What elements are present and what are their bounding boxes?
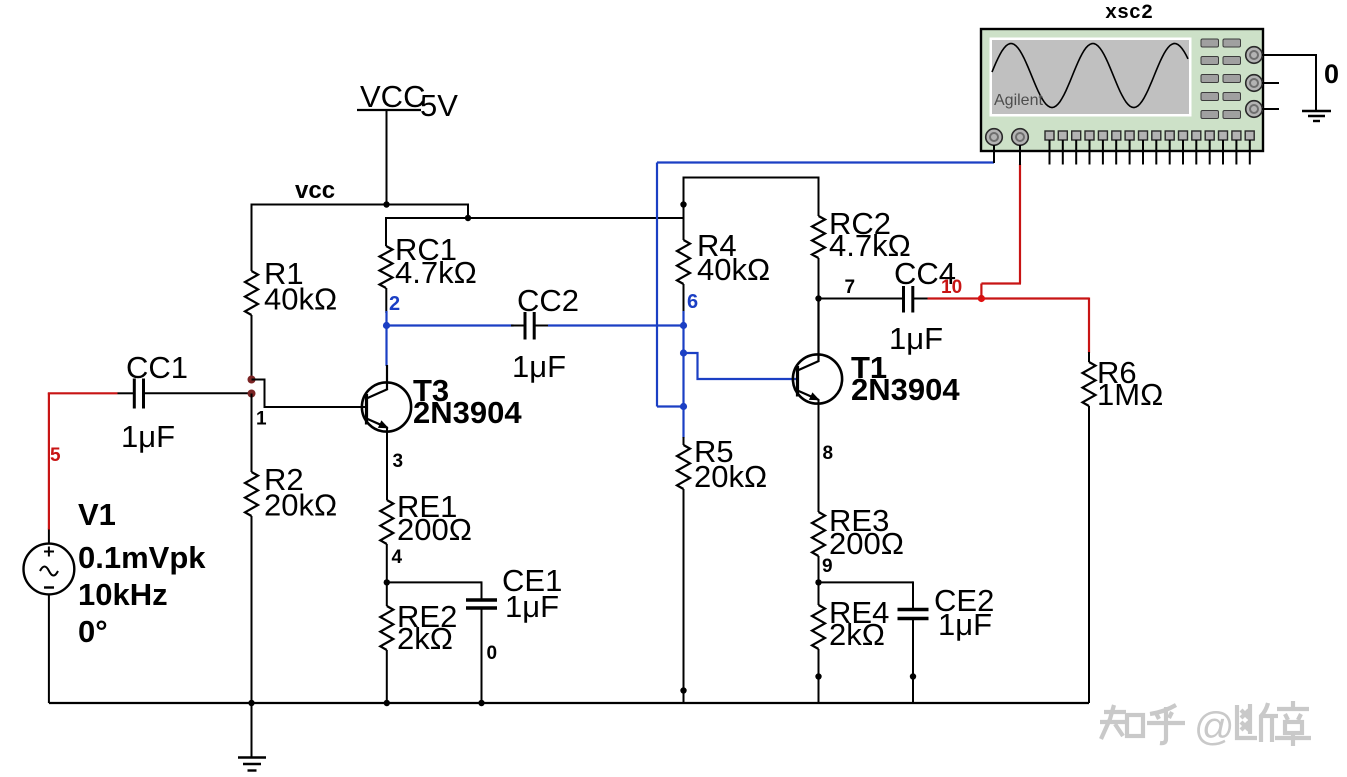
label CC4 value	[889, 321, 943, 356]
transistor T1 collector lead	[798, 299, 819, 371]
label R6 value	[1097, 377, 1163, 412]
svg-text:2kΩ: 2kΩ	[829, 617, 885, 652]
oscilloscope screen	[992, 40, 1189, 114]
node junction 9	[815, 579, 821, 585]
resistor RE4 top lead	[818, 582, 820, 605]
wire node5 horizontal	[48, 392, 118, 394]
svg-text:8: 8	[823, 443, 834, 464]
resistor RC1 top lead	[385, 217, 387, 246]
wire node10 horizontal	[928, 297, 1090, 299]
svg-text:V1: V1	[78, 497, 116, 532]
label RC1	[395, 232, 457, 267]
label T1 part 2N3904	[851, 372, 960, 407]
label RE1	[397, 489, 457, 524]
svg-text:2kΩ: 2kΩ	[397, 621, 453, 656]
svg-text:10: 10	[941, 277, 962, 298]
svg-text:CC2: CC2	[517, 283, 579, 318]
resistor R5 top lead	[683, 437, 685, 445]
oscilloscope buttons	[1201, 39, 1241, 119]
wire node5 vertical	[48, 393, 50, 529]
node junction 6b	[680, 349, 687, 356]
resistor R6 bottom lead	[1088, 406, 1090, 703]
resistor RE2 bottom lead	[386, 650, 388, 703]
wire node10 to R6	[1088, 298, 1090, 354]
resistor RC2 top lead	[818, 177, 820, 217]
transistor T1 base bar	[796, 366, 799, 397]
label 0 scope	[1324, 59, 1339, 89]
capacitor CC1 plates	[134, 379, 143, 409]
ground symbol scope	[1302, 111, 1331, 121]
resistor RE1 bottom lead	[386, 544, 388, 582]
node junction RE4 bottom	[815, 673, 821, 679]
transistor T1 emitter lead	[818, 399, 820, 512]
label RE4 value	[829, 617, 885, 652]
svg-text:2N3904: 2N3904	[851, 372, 960, 407]
svg-text:CC1: CC1	[126, 350, 188, 385]
svg-text:0°: 0°	[78, 614, 108, 649]
resistor RE2 top lead	[386, 582, 388, 606]
label R5 value	[694, 459, 767, 494]
scope connector right1	[1246, 47, 1263, 64]
label V1	[78, 497, 116, 532]
label T1	[851, 350, 887, 385]
label T3	[413, 373, 449, 408]
resistor RE4 bottom lead	[818, 649, 820, 703]
wire node7 to CC4	[819, 298, 903, 300]
svg-text:1μF: 1μF	[512, 349, 566, 384]
node junction vcc-feed	[465, 215, 471, 221]
net label 4	[392, 547, 403, 568]
svg-text:5V: 5V	[420, 88, 458, 123]
svg-text:1μF: 1μF	[121, 419, 175, 454]
oscilloscope screen frame	[990, 38, 1192, 117]
label CE1	[502, 563, 562, 598]
oscilloscope body	[981, 29, 1263, 151]
label R5	[694, 434, 734, 469]
wire vcc rail stage1	[252, 204, 469, 206]
resistor R4	[677, 240, 690, 284]
wire node6 to T1 base	[684, 353, 798, 379]
node junction 2	[383, 322, 390, 329]
label R4	[697, 228, 737, 263]
node junction gnd-RE2	[384, 700, 390, 706]
svg-text:4: 4	[392, 547, 403, 568]
capacitor CE2 plates	[898, 610, 929, 619]
capacitor CE2 top lead	[912, 581, 914, 608]
svg-text:VCC: VCC	[360, 79, 425, 114]
node junction base-tap	[248, 376, 256, 384]
scope connector bottom2	[1012, 129, 1029, 146]
label RE2	[397, 599, 457, 634]
label RE3	[829, 503, 889, 538]
svg-text:0.1mVpk: 0.1mVpk	[78, 540, 206, 575]
resistor R2	[245, 472, 258, 516]
label CE2 value	[938, 607, 992, 642]
resistor R1	[245, 271, 258, 315]
VCC value label 5V	[420, 88, 458, 123]
node junction CC1-in	[248, 390, 256, 398]
transistor T3 emitter lead	[386, 427, 388, 500]
wire vcc rail to stage2	[386, 217, 684, 219]
scope stub right2	[1262, 82, 1279, 84]
transistor T1 circle	[793, 354, 842, 403]
net label 0	[487, 643, 498, 664]
net label 8	[823, 443, 834, 464]
node junction 7	[815, 295, 821, 301]
svg-text:@: @	[1194, 705, 1235, 749]
capacitor CE1 top lead	[481, 581, 483, 598]
svg-text:20kΩ: 20kΩ	[694, 459, 767, 494]
svg-text:6: 6	[687, 291, 698, 313]
net label 1	[256, 409, 267, 430]
transistor T3 emitter	[367, 419, 389, 429]
node junction 6c	[680, 403, 687, 410]
svg-text:200Ω: 200Ω	[397, 512, 472, 547]
label CC2	[517, 283, 579, 318]
capacitor CC4 plates	[904, 286, 913, 313]
resistor R6 top lead	[1088, 352, 1090, 362]
svg-text:vcc: vcc	[295, 177, 335, 204]
label RC1 value	[395, 255, 477, 290]
label Agilent	[994, 92, 1043, 109]
svg-text:4.7kΩ: 4.7kΩ	[395, 255, 477, 290]
wire CC2 to node6	[548, 324, 684, 326]
node junction gnd-CE1	[478, 700, 484, 706]
net label 7	[845, 277, 856, 298]
transistor T1 emitter	[798, 391, 820, 401]
scope connector bottom1	[986, 129, 1003, 146]
svg-text:40kΩ: 40kΩ	[697, 252, 770, 287]
node junction 4	[384, 579, 390, 585]
label CE2	[934, 583, 994, 618]
svg-text:1μF: 1μF	[505, 589, 559, 624]
svg-text:1MΩ: 1MΩ	[1097, 377, 1163, 412]
wire stage2 top vertical	[683, 177, 685, 240]
resistor RE1	[380, 500, 393, 544]
node junction vcc-vert	[383, 201, 389, 207]
wire node2 to collector	[385, 326, 387, 367]
label R2	[264, 462, 304, 497]
resistor RE2	[380, 606, 393, 650]
label R1 value	[264, 282, 337, 317]
node junction gnd-V1R2	[248, 700, 254, 706]
svg-text:20kΩ: 20kΩ	[264, 488, 337, 523]
node junction 10	[978, 295, 985, 302]
node junction CE2 bottom	[910, 673, 916, 679]
svg-text:5: 5	[50, 445, 61, 466]
svg-text:40kΩ: 40kΩ	[264, 282, 337, 317]
source V1 minus sign	[44, 586, 54, 588]
svg-text:10kHz: 10kHz	[78, 577, 168, 612]
net label 5	[50, 445, 61, 466]
capacitor CC1 left lead	[118, 392, 134, 394]
label V1 frequency	[78, 577, 168, 612]
label CC1	[126, 350, 188, 385]
watermark zhihu	[1100, 701, 1311, 749]
scope connector right2	[1246, 75, 1263, 92]
net label 9	[822, 556, 833, 577]
svg-text:1μF: 1μF	[889, 321, 943, 356]
net label 10	[941, 277, 962, 298]
source V1 circle	[24, 544, 75, 595]
label CC1 value	[121, 419, 175, 454]
svg-text:2N3904: 2N3904	[413, 395, 522, 430]
svg-text:9: 9	[822, 556, 833, 577]
wire node2 to CC2	[387, 324, 514, 326]
wire vcc jog down	[467, 204, 469, 219]
transistor T3 base bar	[365, 394, 368, 425]
svg-text:3: 3	[393, 451, 404, 472]
wire node9 to CE2	[819, 581, 914, 583]
wire scope gnd	[1262, 55, 1316, 111]
label V1 phase	[78, 614, 108, 649]
resistor RC2 bottom lead	[818, 258, 820, 299]
VCC power symbol	[357, 79, 425, 205]
scope lead bottom1	[993, 145, 995, 163]
label R2 value	[264, 488, 337, 523]
resistor R2 top lead	[251, 394, 253, 473]
source V1 sine mark	[40, 567, 58, 576]
net label 3	[393, 451, 404, 472]
transistor T3 circle	[362, 382, 411, 431]
wire node6 vertical	[682, 311, 684, 438]
svg-text:Agilent: Agilent	[994, 92, 1043, 109]
resistor R1 top lead	[251, 204, 253, 272]
resistor RE4	[812, 605, 825, 649]
label RE2 value	[397, 621, 453, 656]
source V1 plus sign	[44, 547, 54, 557]
svg-text:0: 0	[487, 643, 498, 664]
wire node1 jog	[252, 380, 367, 408]
node junction R5 bottom	[680, 687, 686, 693]
svg-text:200Ω: 200Ω	[829, 526, 904, 561]
resistor R5 bottom lead	[683, 489, 685, 703]
capacitor CC2 right lead	[536, 325, 551, 327]
transistor T3 collector lead	[367, 365, 388, 399]
label RC2 value	[829, 228, 911, 263]
net label 2	[389, 293, 400, 315]
wire stage2 top rail	[683, 177, 819, 179]
label R1	[264, 256, 304, 291]
resistor RC2	[812, 216, 825, 258]
capacitor CE1 plates	[466, 600, 497, 608]
net label 6	[687, 291, 698, 313]
resistor RC1 bottom lead	[385, 288, 387, 313]
scope connector right3	[1246, 101, 1263, 118]
svg-text:2: 2	[389, 293, 400, 315]
capacitor CE1 bottom lead	[481, 610, 483, 704]
svg-text:1μF: 1μF	[938, 607, 992, 642]
resistor RE3	[812, 512, 825, 556]
oscilloscope sine trace	[992, 44, 1188, 108]
source V1 bottom lead	[48, 594, 50, 703]
scope bottom pins	[1045, 131, 1254, 165]
label V1 amplitude	[78, 540, 206, 575]
capacitor CC2 left lead	[511, 325, 524, 327]
label R6	[1097, 355, 1137, 390]
scope lead bottom2	[1019, 145, 1021, 165]
node junction 6a	[680, 322, 687, 329]
resistor R5	[677, 445, 690, 489]
svg-text:xsc2: xsc2	[1105, 2, 1153, 25]
node junction R4 top	[680, 201, 686, 207]
wire scope chA blue	[657, 163, 994, 407]
resistor RE3 bottom lead	[818, 556, 820, 582]
capacitor CC4 right lead	[914, 298, 929, 300]
wire node4 to CE1	[387, 581, 482, 583]
label CE1 value	[505, 589, 559, 624]
label R4 value	[697, 252, 770, 287]
source V1 top lead	[48, 529, 50, 545]
resistor R6	[1083, 362, 1096, 406]
label RC2	[829, 206, 891, 241]
instrument label xsc2	[1105, 2, 1153, 25]
capacitor CC2 plates	[525, 312, 534, 340]
label RE4	[829, 595, 889, 630]
resistor R2 bottom lead	[251, 516, 253, 703]
label RE1 value	[397, 512, 472, 547]
label CC4	[894, 256, 956, 291]
svg-text:0: 0	[1324, 59, 1339, 89]
wire CC1 to node1	[145, 392, 252, 394]
label CC2 value	[512, 349, 566, 384]
label T3 part 2N3904	[413, 395, 522, 430]
svg-text:1: 1	[256, 409, 267, 430]
resistor R4 bottom lead	[683, 284, 685, 313]
wire ground rail	[49, 702, 1089, 704]
net label vcc	[295, 177, 335, 204]
resistor RC1	[380, 246, 393, 288]
scope stub right3	[1262, 108, 1279, 110]
label RE3 value	[829, 526, 904, 561]
resistor R1 bottom lead	[251, 315, 253, 380]
svg-text:7: 7	[845, 277, 856, 298]
capacitor CE2 bottom lead	[912, 620, 914, 703]
wire scope chB red	[981, 164, 1021, 299]
wire node2 segment	[385, 311, 387, 326]
ground symbol	[238, 703, 266, 771]
